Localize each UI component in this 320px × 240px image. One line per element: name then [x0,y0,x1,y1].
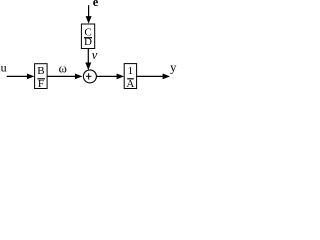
arrowhead into block CD [86,16,92,24]
wire block CD to summer [87,49,89,64]
fraction bar of 1/A [127,78,134,80]
svg-text:1: 1 [128,65,134,77]
wire summer to block 1A [96,75,118,77]
block B/F [35,64,48,89]
svg-text:v: v [92,48,98,62]
wire u to block BF [7,75,29,77]
svg-text:ω: ω [59,61,67,75]
arrowhead into summer from top [85,63,91,71]
svg-text:y: y [170,60,177,75]
block 1/A [124,64,136,89]
fraction bar of B/F [37,78,45,80]
plus sign of summer, horizontal stroke [86,75,92,77]
fraction bar of C/D [84,37,92,39]
wire block BF to summer [47,75,76,77]
svg-text:D: D [84,36,92,48]
wire block 1A to output [137,75,164,77]
svg-text:e: e [93,0,99,9]
plus sign of summer, vertical stroke [88,73,90,79]
svg-text:B: B [37,65,44,77]
arrowhead into block 1A [117,74,125,80]
svg-text:u: u [1,61,7,75]
svg-text:A: A [126,78,134,90]
svg-text:F: F [38,78,44,90]
summer (summing junction circle) [83,70,96,83]
arrowhead into block BF [27,74,35,80]
wire e to block CD [88,5,90,17]
block C/D [81,24,94,49]
arrowhead at output y [163,74,171,80]
arrowhead into summer from left [75,74,83,80]
